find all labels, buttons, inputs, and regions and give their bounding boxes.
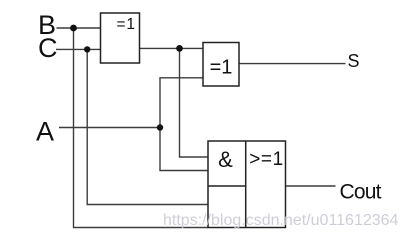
junction dot on A wire — [157, 124, 163, 130]
wire XOR2 output to S — [239, 63, 346, 65]
AND-OR compound gate outer body — [208, 141, 286, 228]
AND-OR divider between AND column and OR column — [245, 141, 247, 228]
XOR gate U1 body — [101, 13, 140, 63]
svg-text:A: A — [36, 117, 54, 147]
wire OR output to Cout — [286, 185, 336, 187]
wire input B to XOR1 pin — [57, 27, 101, 29]
wire A branch down to AND second input — [160, 128, 208, 171]
svg-text:=1: =1 — [210, 57, 233, 79]
XOR gate U2 body — [203, 43, 239, 87]
junction dot on B wire — [70, 25, 77, 32]
wire C branch down to AND lower-cell input — [87, 49, 208, 204]
wire input C to XOR1 pin — [56, 48, 101, 50]
junction dot on C wire — [84, 46, 90, 52]
svg-text:>=1: >=1 — [249, 149, 284, 170]
wire XOR1 output to XOR2 input (node B xor C) — [140, 47, 204, 49]
svg-text:&: & — [218, 147, 233, 172]
wire node BxorC branch down to AND upper input — [180, 48, 209, 157]
junction dot on XOR1 output node — [176, 45, 183, 52]
svg-text:=1: =1 — [117, 16, 136, 33]
svg-text:Cout: Cout — [340, 181, 382, 204]
svg-text:C: C — [38, 33, 58, 63]
wire A branch up to XOR2 second input — [160, 78, 203, 128]
wire B branch down to AND lower-cell bottom input — [74, 28, 209, 228]
svg-text:S: S — [348, 51, 360, 71]
AND column cell divider — [208, 185, 246, 187]
svg-text:https://blog.csdn.net/u0116123: https://blog.csdn.net/u011612364 — [163, 212, 399, 229]
wire input A horizontal — [59, 127, 160, 129]
